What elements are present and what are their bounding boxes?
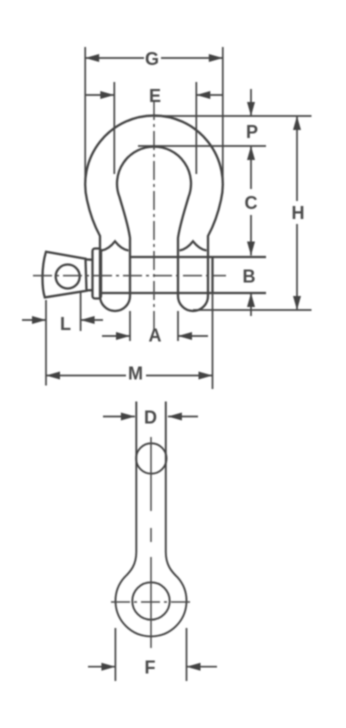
M dimension line xyxy=(46,375,213,377)
E arrows xyxy=(100,91,114,99)
centerline side view horizontal xyxy=(111,601,191,603)
H dimension line xyxy=(296,116,298,310)
svg-text:C: C xyxy=(245,193,258,213)
fillet curl right ear xyxy=(180,241,207,250)
B arrow xyxy=(247,293,255,307)
G arrows xyxy=(85,54,99,62)
centerline pin axis xyxy=(33,275,226,277)
A arrows xyxy=(116,332,130,340)
C dimension line xyxy=(250,146,252,256)
pin bottom edge xyxy=(100,292,266,294)
svg-text:F: F xyxy=(145,658,156,678)
ref line top of bow xyxy=(154,115,312,117)
P arrow tail top xyxy=(250,89,252,116)
E dimension tails xyxy=(85,94,223,96)
G extension lines xyxy=(85,47,223,184)
F dimension tails xyxy=(88,666,217,668)
centerline front view vertical xyxy=(153,101,155,331)
svg-text:P: P xyxy=(246,122,258,142)
svg-text:G: G xyxy=(145,49,159,69)
svg-text:B: B xyxy=(243,267,256,287)
ref baseline bottom xyxy=(193,309,312,311)
A extension lines xyxy=(130,311,178,341)
side view bow section circle xyxy=(136,443,166,473)
M extension lines xyxy=(46,293,213,389)
svg-text:H: H xyxy=(292,203,305,223)
F arrows xyxy=(101,663,115,671)
pin neck xyxy=(86,259,93,290)
svg-text:M: M xyxy=(128,364,143,384)
svg-text:D: D xyxy=(144,408,157,428)
F extension lines xyxy=(115,628,186,681)
M arrows xyxy=(46,372,60,380)
svg-text:A: A xyxy=(149,326,162,346)
svg-text:E: E xyxy=(149,86,161,106)
side view pin hole xyxy=(132,582,169,619)
pin tip xyxy=(211,257,213,293)
L extension line right xyxy=(80,292,82,331)
P arrows xyxy=(247,102,255,116)
pin eye hole xyxy=(56,265,80,289)
L arrows xyxy=(32,316,46,324)
svg-text:L: L xyxy=(60,314,71,334)
shackle bow body outline xyxy=(85,116,223,311)
fillet curl left ear xyxy=(102,241,129,250)
C arrows xyxy=(247,242,255,256)
D dimension tails xyxy=(103,416,198,418)
E extension lines xyxy=(114,82,196,174)
centerline side view vertical xyxy=(150,437,152,648)
pin head xyxy=(42,252,86,298)
side view shank and boss xyxy=(115,402,186,637)
ref line inner top of bow xyxy=(138,145,266,147)
pin top edge xyxy=(130,256,266,258)
H arrows xyxy=(293,116,301,130)
D arrows xyxy=(121,413,135,421)
L dimension tails xyxy=(22,319,103,321)
pin collar xyxy=(93,249,102,299)
G dimension line xyxy=(85,57,223,59)
B arrow tail bottom xyxy=(250,293,252,316)
A dimension tails xyxy=(102,335,208,337)
